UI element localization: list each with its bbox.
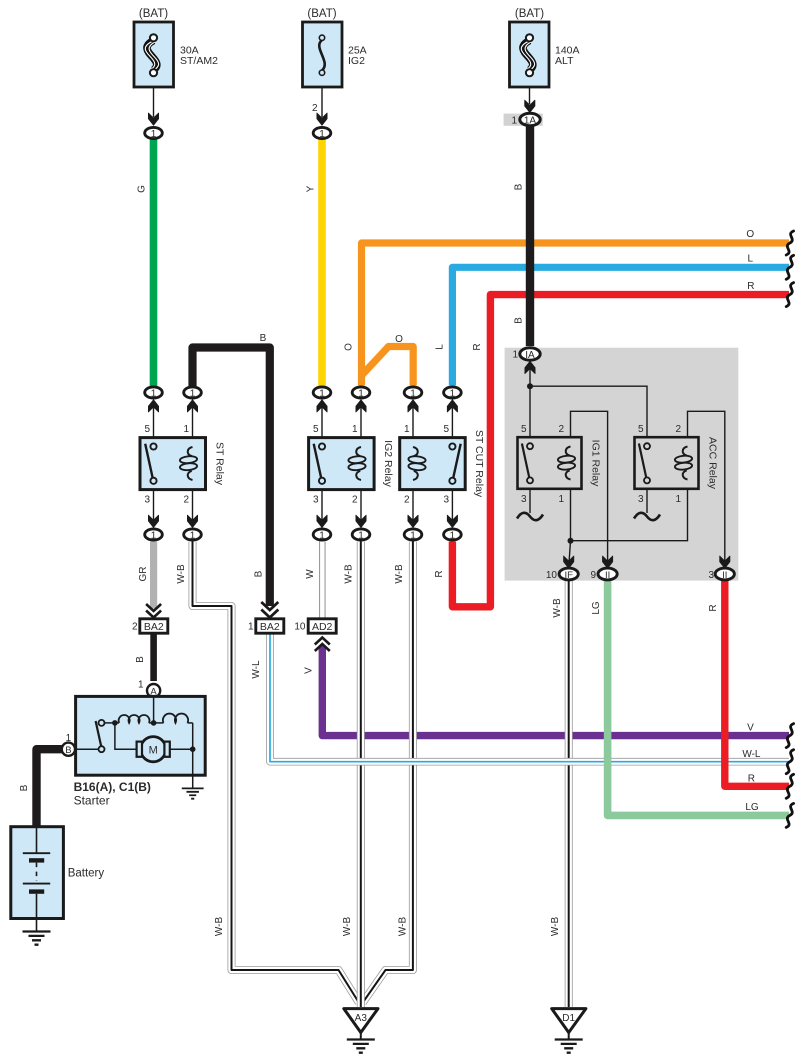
svg-text:B: B (65, 745, 71, 756)
svg-text:B: B (514, 183, 525, 190)
svg-text:G: G (137, 185, 148, 193)
svg-text:1: 1 (352, 424, 358, 435)
svg-text:2: 2 (675, 424, 681, 435)
connector 1 (ST relay pin 2 below) (184, 529, 202, 541)
svg-text:W-L: W-L (251, 660, 262, 679)
svg-text:2: 2 (558, 424, 564, 435)
connector 1 below IG2 fuse (313, 127, 331, 139)
svg-text:R: R (748, 774, 755, 785)
svg-text:5: 5 (313, 424, 319, 435)
connector 1 (ST relay pin 3 below) (145, 529, 163, 541)
svg-text:L: L (748, 254, 754, 265)
connector 1 (ST relay pin 5) (145, 387, 163, 399)
wire from IA to IG1 relay pin 5 (529, 366, 531, 437)
arrow (double chevron) of B wire into BA2 (261, 602, 278, 618)
svg-text:IF: IF (564, 570, 573, 581)
svg-text:W: W (305, 569, 316, 579)
connector AD2 (pin 10) (294, 619, 336, 633)
svg-text:BA2: BA2 (144, 621, 164, 633)
svg-text:L: L (435, 344, 446, 350)
ground D1 (552, 1009, 586, 1053)
IG2 relay R2 (309, 400, 394, 528)
ST CUT relay R3 (400, 400, 485, 528)
fuse 140A ALT (510, 8, 580, 87)
connector 1A gray tag background (504, 114, 543, 126)
svg-text:B: B (135, 656, 146, 663)
svg-text:3: 3 (521, 494, 527, 505)
svg-text:W-B: W-B (344, 564, 355, 584)
svg-text:V: V (304, 667, 315, 674)
svg-text:10: 10 (294, 622, 306, 633)
connector IA at relay block top (525, 361, 535, 373)
connector II (pin 3) (720, 556, 730, 568)
wire B (black) from starter terminal B to battery (37, 749, 63, 826)
svg-text:2: 2 (312, 103, 318, 114)
svg-text:O: O (746, 229, 754, 240)
svg-text:1: 1 (450, 388, 456, 399)
wire O branch (orange jog) to ST CUT relay pin 1 (362, 347, 414, 386)
svg-text:W-B: W-B (342, 917, 353, 937)
svg-text:GR: GR (138, 567, 149, 582)
svg-text:5: 5 (144, 424, 150, 435)
svg-text:R: R (434, 570, 445, 577)
svg-text:ST Relay: ST Relay (214, 442, 226, 486)
wire B (black) from ALT fuse to connector 1A of relay block (526, 126, 534, 346)
svg-text:1: 1 (558, 494, 564, 505)
battery (11, 827, 105, 931)
svg-text:1: 1 (248, 622, 254, 633)
svg-text:B: B (19, 784, 30, 791)
svg-text:1: 1 (190, 530, 196, 541)
svg-text:ACC Relay: ACC Relay (707, 437, 719, 490)
svg-text:W-B: W-B (398, 917, 409, 937)
connector 1 (ST CUT relay pin 5) (444, 387, 462, 399)
wire W-B from IG2 relay pin 2 to ground A3 (357, 542, 365, 1008)
relay panel box (IG1/ACC relay block) (505, 348, 739, 581)
connector 1 (IG2 relay pin 1) (352, 387, 370, 399)
wire W-B from connector IF to ground D1 (565, 581, 573, 1007)
connector 1 (IG2 relay pin 3 below) (313, 529, 331, 541)
svg-text:1: 1 (358, 388, 364, 399)
svg-text:(BAT): (BAT) (307, 8, 336, 20)
wire Y (yellow) from IG2 fuse to IG2 relay pin 5 (318, 140, 326, 387)
ACC relay R5 (634, 424, 719, 520)
fuse 25A IG2 (303, 8, 367, 87)
connector II (pin 9) (603, 556, 613, 568)
svg-text:W-B: W-B (550, 917, 561, 937)
wire W-B from ST relay pin 2 to ground A3 (193, 542, 359, 1003)
svg-text:IG2: IG2 (348, 55, 365, 67)
svg-text:ST/AM2: ST/AM2 (180, 55, 218, 67)
wire from junction to ACC relay pin 5 (530, 386, 647, 437)
wire from fuse IG2 to connector (321, 87, 323, 117)
connector 1 (IG2 relay pin 2 below) (352, 529, 370, 541)
svg-text:3: 3 (144, 495, 150, 506)
svg-text:B: B (260, 333, 267, 344)
svg-text:1A: 1A (524, 115, 537, 126)
svg-text:IA: IA (525, 350, 535, 361)
wire V (purple) from connector AD2 to right edge (322, 646, 789, 736)
svg-text:1: 1 (512, 350, 518, 361)
wire from fuse ST/AM2 to connector (153, 87, 155, 117)
svg-text:W-B: W-B (552, 598, 563, 618)
svg-text:O: O (344, 343, 355, 351)
svg-text:1: 1 (358, 530, 364, 541)
svg-text:1: 1 (319, 129, 325, 140)
svg-text:5: 5 (638, 424, 644, 435)
svg-text:9: 9 (590, 570, 596, 581)
svg-text:R: R (472, 343, 483, 350)
svg-text:W-B: W-B (394, 564, 405, 584)
IG1 relay R4 (517, 424, 602, 520)
svg-text:1: 1 (183, 424, 189, 435)
wire W-L (white-blue) from connector BA2 to right edge (270, 633, 789, 762)
wire from ACC relay pin 2 to connector II (3) (688, 411, 725, 563)
ground A3 (344, 1009, 378, 1053)
arrow (double chevron) of V wire below AD2 (315, 638, 330, 652)
wire W-B from ST CUT relay pin 2 to ground A3 (363, 542, 413, 1003)
connector BA2 (pin 2) (132, 619, 168, 633)
wire O (orange) from right edge to IG2 relay pin 1 (362, 243, 790, 386)
fuse 30A ST/AM2 (134, 8, 218, 87)
wire from IG1 relay pin 2 to connector II (9) (571, 411, 608, 563)
svg-text:1: 1 (511, 116, 517, 127)
wire B (black) from ST relay pin 1 to connector BA2 (193, 348, 270, 607)
svg-text:2: 2 (183, 495, 189, 506)
svg-text:IG1 Relay: IG1 Relay (590, 440, 602, 487)
wire B (black) from BA2 to starter terminal A (150, 633, 157, 681)
wire L (blue) from right edge to ST CUT relay pin 5 (452, 267, 789, 385)
wire W (white) from IG2 relay pin 3 to connector AD2 (319, 542, 326, 619)
ground (battery) (23, 932, 51, 945)
svg-text:R: R (747, 281, 754, 292)
svg-text:LG: LG (745, 802, 759, 813)
connector 1 (ST relay pin 1) (184, 387, 202, 399)
svg-text:3: 3 (638, 494, 644, 505)
svg-text:10: 10 (546, 570, 558, 581)
svg-text:B: B (514, 317, 525, 324)
svg-text:V: V (747, 723, 754, 734)
ground (starter) (182, 788, 204, 798)
svg-text:W-B: W-B (214, 917, 225, 937)
svg-text:BA2: BA2 (260, 621, 280, 633)
svg-text:AD2: AD2 (312, 621, 333, 633)
wire R (red) from right edge to ST CUT relay pin 3 (452, 295, 789, 607)
svg-text:3: 3 (708, 570, 714, 581)
connector 1 (ST CUT relay pin 3 below) (444, 529, 462, 541)
svg-text:Y: Y (306, 185, 317, 192)
svg-text:1: 1 (675, 494, 681, 505)
svg-text:1: 1 (319, 388, 325, 399)
svg-text:1: 1 (151, 129, 157, 140)
node junction on IA wire (527, 383, 533, 389)
svg-text:A3: A3 (355, 1013, 368, 1024)
svg-text:5: 5 (521, 424, 527, 435)
svg-text:2: 2 (404, 495, 410, 506)
svg-text:1: 1 (138, 680, 144, 691)
svg-text:II: II (605, 570, 610, 581)
svg-text:1: 1 (410, 388, 416, 399)
connector BA2 (pin 1) (248, 619, 284, 633)
svg-text:1: 1 (151, 388, 157, 399)
svg-text:Battery: Battery (68, 868, 105, 880)
arrow (double chevron) of GR wire into BA2 (146, 604, 161, 618)
svg-text:1: 1 (190, 388, 196, 399)
svg-text:ALT: ALT (555, 55, 574, 67)
svg-text:1: 1 (410, 530, 416, 541)
wire G (green) from ST/AM2 fuse to ST relay pin 5 (150, 140, 158, 387)
svg-text:W-B: W-B (176, 564, 187, 584)
svg-text:D1: D1 (562, 1013, 575, 1024)
svg-text:LG: LG (591, 601, 602, 615)
svg-text:3: 3 (313, 495, 319, 506)
svg-text:ST CUT Relay: ST CUT Relay (473, 430, 485, 498)
svg-text:(BAT): (BAT) (515, 8, 544, 20)
connector 1 (IG2 relay pin 5) (313, 387, 331, 399)
connector 1 below ST/AM2 fuse (145, 127, 163, 139)
svg-text:W-L: W-L (742, 749, 761, 760)
svg-text:1: 1 (151, 530, 157, 541)
wire GR (gray) from ST relay pin 3 to connector BA2 (150, 542, 157, 609)
svg-text:3: 3 (443, 495, 449, 506)
connector 1 (ST CUT relay pin 2 below) (404, 529, 422, 541)
svg-text:II: II (722, 570, 727, 581)
connector 1A (520, 113, 540, 126)
svg-text:Starter: Starter (74, 794, 110, 808)
wire from IG1 relay pin 1 to connector IF and ACC relay pin 1 (570, 489, 572, 541)
starter B16(A), C1(B) (62, 680, 205, 789)
svg-text:2: 2 (132, 622, 138, 633)
svg-text:M: M (149, 744, 158, 756)
svg-text:B: B (254, 570, 265, 577)
svg-text:5: 5 (443, 424, 449, 435)
svg-text:R: R (708, 604, 719, 611)
svg-text:B16(A), C1(B): B16(A), C1(B) (74, 780, 151, 794)
wire LG (light green) from connector II to right edge (608, 581, 789, 815)
svg-text:IG2 Relay: IG2 Relay (382, 440, 394, 487)
wire from fuse ALT to connector 1A (529, 87, 531, 104)
wire R (red) from connector II to right edge (725, 581, 789, 786)
svg-text:2: 2 (352, 495, 358, 506)
svg-text:1: 1 (404, 424, 410, 435)
connector IF (pin 10) (564, 556, 574, 568)
svg-text:1: 1 (319, 530, 325, 541)
svg-text:(BAT): (BAT) (139, 8, 168, 20)
svg-text:O: O (395, 334, 403, 345)
ST relay R1 (140, 400, 226, 528)
svg-text:1: 1 (450, 530, 456, 541)
connector 1 (ST CUT relay pin 1) (404, 387, 422, 399)
